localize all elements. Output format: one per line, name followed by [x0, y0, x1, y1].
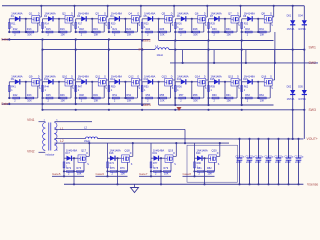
transistor Q2 cell with diode D2 and resistors	[41, 6, 74, 37]
transistor Q7 cell with diode D7 and resistors	[207, 6, 240, 37]
node Gate3 junction 2	[41, 103, 43, 105]
net label IN1	[139, 48, 144, 52]
transistor Q14 cell with diode D14 and resistors	[174, 50, 208, 103]
transistor Q20 cell with diode D20 and resistors	[183, 143, 220, 184]
node Gate2 junction 5	[141, 39, 143, 41]
ground symbol	[131, 184, 139, 192]
transistor Q3 cell with diode D3 and resistors	[75, 6, 108, 37]
wire row2 rail ext	[41, 104, 43, 110]
node top bus junction 6	[206, 5, 208, 7]
transistor Q16 cell with diode D16 and resistors	[241, 50, 275, 103]
svg-text:D01: D01	[287, 14, 292, 17]
svg-text:10K: 10K	[227, 100, 232, 103]
svg-text:10K: 10K	[227, 34, 232, 37]
wire source drop	[213, 50, 215, 63]
svg-text:10K: 10K	[164, 172, 169, 175]
net label Gate4	[142, 103, 151, 107]
svg-text:Q2: Q2	[62, 12, 66, 16]
wire Gate3 bus	[2, 103, 150, 105]
transistor Q18 cell with diode D18 and resistors	[96, 143, 133, 184]
node IN1 bus junction 6	[207, 49, 209, 51]
svg-text:Q20: Q20	[212, 148, 218, 152]
svg-text:22uF: 22uF	[285, 161, 291, 164]
node drain bus join	[184, 142, 186, 144]
wire L2 out	[98, 138, 240, 140]
net label L1 sec	[60, 127, 64, 131]
svg-text:D02: D02	[287, 86, 292, 89]
wire L1 net	[55, 128, 186, 130]
svg-text:Q3: Q3	[95, 12, 99, 16]
transformer T1 secondary winding	[54, 123, 57, 151]
wire rail drop row2 cell 7	[208, 98, 210, 105]
wire inter-row rail 1	[41, 40, 43, 50]
wire right column A	[292, 6, 294, 139]
node Gate2 junction 6	[174, 39, 176, 41]
node top bus junction right	[292, 5, 294, 7]
node top bus junction 8	[273, 5, 275, 7]
svg-text:Q4: Q4	[128, 12, 132, 16]
wire rail drop cell 5	[141, 32, 143, 41]
net label VOUT+	[307, 137, 318, 141]
svg-text:R19: R19	[93, 28, 98, 31]
node vout col A	[292, 138, 294, 140]
inductor L2	[84, 125, 98, 143]
wire source drop	[245, 50, 247, 63]
svg-text:R33: R33	[245, 28, 250, 31]
wire right column B	[303, 6, 305, 139]
node SW3 junction 1	[41, 109, 43, 111]
node Gate1 junction 4	[108, 38, 110, 40]
transistor Q12 cell with diode D12 and resistors	[108, 50, 142, 103]
pin 2 label	[44, 150, 46, 152]
node Gate1 junction 1	[8, 38, 10, 40]
svg-text:Q19: Q19	[168, 148, 174, 152]
wire Gate4 bus	[159, 104, 274, 106]
wire rail drop cell 6	[174, 32, 176, 41]
wire SW3 bus	[43, 109, 304, 111]
node Gate1 junction 3	[75, 38, 77, 40]
transistor Q19 cell with diode D19 and resistors	[139, 143, 176, 184]
wire Gate1 bus	[2, 39, 150, 41]
svg-text:R55: R55	[160, 94, 165, 97]
transformer T1 label	[46, 154, 55, 157]
wire inter-row rail 2	[74, 40, 76, 50]
net label Gate5	[52, 172, 61, 176]
svg-text:R25: R25	[160, 28, 165, 31]
svg-text:Gate6: Gate6	[96, 172, 105, 176]
svg-text:R48: R48	[79, 94, 84, 97]
node Gate3 junction 4	[108, 103, 110, 105]
svg-text:R31: R31	[226, 28, 231, 31]
svg-text:R51: R51	[112, 94, 117, 97]
capacitor C16	[285, 138, 294, 186]
wire IN1 bus	[43, 49, 304, 51]
wire row2 rail 5	[141, 50, 143, 104]
transistor Q11 cell with diode D11 and resistors	[75, 50, 109, 103]
wire L2 net	[55, 142, 65, 144]
wire inter-row rail 7	[240, 40, 242, 50]
transistor Q8 cell with diode D8 and resistors	[241, 6, 274, 37]
wire rail drop cell 8	[241, 32, 243, 41]
transformer T1 primary winding	[43, 122, 46, 151]
node Gate4 junction 6	[174, 104, 176, 106]
node gnd junction row3 2	[116, 183, 118, 185]
node IN1 bus junction 4	[141, 49, 143, 51]
svg-text:R63: R63	[245, 94, 250, 97]
svg-text:Q9: Q9	[29, 75, 33, 79]
svg-text:R22: R22	[126, 28, 131, 31]
net label Gate3	[1, 102, 10, 106]
svg-text:Gate7: Gate7	[139, 172, 148, 176]
svg-text:10K: 10K	[94, 100, 99, 103]
svg-text:D20: D20	[196, 152, 201, 155]
svg-text:R82: R82	[207, 167, 212, 170]
svg-text:Q18: Q18	[125, 148, 131, 152]
svg-text:VIN2: VIN2	[27, 149, 35, 153]
svg-text:22uF: 22uF	[295, 161, 301, 164]
wire gate4 feed	[158, 98, 160, 105]
svg-text:10K: 10K	[208, 172, 213, 175]
net label Gate2	[142, 38, 151, 42]
svg-text:Q14: Q14	[195, 75, 201, 79]
svg-text:R34: R34	[259, 28, 264, 31]
net label Vsense	[307, 183, 318, 187]
svg-text:Q1: Q1	[29, 12, 33, 16]
svg-text:R45: R45	[46, 94, 51, 97]
inductor L1	[155, 44, 169, 57]
svg-text:SW2: SW2	[309, 61, 316, 65]
svg-text:R75: R75	[110, 167, 115, 170]
wire source drop	[182, 50, 184, 63]
node row3 drain junction 4	[219, 142, 221, 144]
net label L2 sec	[60, 139, 64, 143]
transistor Q10 cell with diode D10 and resistors	[41, 50, 75, 103]
svg-text:R16: R16	[60, 28, 65, 31]
node IN1 bus junction 5	[174, 49, 176, 51]
svg-text:1N74A: 1N74A	[287, 28, 295, 31]
transistor Q17 cell with diode D17 and resistors	[52, 143, 89, 184]
node SW3 junction 7	[241, 109, 243, 111]
svg-text:22u: 22u	[289, 155, 294, 158]
svg-text:10K: 10K	[61, 34, 66, 37]
svg-text:D05: D05	[298, 86, 303, 89]
svg-text:Q12: Q12	[128, 75, 134, 79]
net label Gate1	[1, 38, 10, 42]
node IN1 bus junction 2	[75, 49, 77, 51]
svg-text:R60: R60	[212, 94, 217, 97]
svg-text:R64: R64	[259, 94, 264, 97]
svg-text:Q15: Q15	[228, 75, 234, 79]
transistor Q5 cell with diode D5 and resistors	[141, 6, 174, 37]
node Gate3 junction 3	[75, 103, 77, 105]
wire T1 primary bottom	[39, 151, 46, 153]
svg-text:10K: 10K	[94, 34, 99, 37]
svg-text:R58: R58	[193, 94, 198, 97]
capacitor C14	[265, 138, 274, 186]
diode D05	[298, 86, 307, 102]
svg-text:R28: R28	[193, 28, 198, 31]
svg-text:10K: 10K	[160, 34, 165, 37]
node row3 drain junction 1	[88, 142, 90, 144]
node top bus junction 3	[107, 5, 109, 7]
svg-text:22u: 22u	[279, 155, 284, 158]
node SW3 junction 2	[75, 109, 77, 111]
node top bus junction 4	[140, 5, 142, 7]
svg-text:L2: L2	[60, 139, 64, 143]
node gnd junction row3 3	[160, 183, 162, 185]
svg-text:SW3: SW3	[309, 108, 316, 112]
svg-text:R18: R18	[79, 28, 84, 31]
svg-text:22uF: 22uF	[265, 161, 271, 164]
svg-text:SW1: SW1	[309, 46, 316, 50]
node IN1 bus junction 7	[241, 49, 243, 51]
svg-text:10uH: 10uH	[157, 53, 163, 57]
svg-text:R79: R79	[164, 167, 169, 170]
node top bus junction 7	[239, 5, 241, 7]
wire row2 rail 4	[108, 50, 110, 104]
wire rail drop cell 7	[208, 32, 210, 41]
wire inter-row rail 4	[141, 40, 143, 50]
node Gate1 junction 2	[41, 38, 43, 40]
wire row2 rail 7	[207, 50, 209, 104]
diode D02	[287, 86, 296, 102]
svg-text:1N74A: 1N74A	[298, 28, 306, 31]
svg-text:D19: D19	[153, 152, 158, 155]
node SW2 junction	[182, 62, 184, 64]
net label VIN1	[27, 118, 35, 122]
svg-text:Gate5: Gate5	[52, 172, 61, 176]
node IN1 bus junction right	[292, 49, 294, 51]
node SW3 junction 3	[108, 109, 110, 111]
node IN1 bus junction 1	[41, 49, 43, 51]
capacitor C17	[295, 138, 304, 186]
diode D04	[298, 14, 307, 31]
node gnd junction row3 1	[73, 183, 75, 185]
svg-text:inductor: inductor	[46, 154, 55, 157]
wire T1 primary top	[39, 121, 46, 123]
node SW3 junction colB	[303, 109, 305, 111]
node SW3 junction right	[292, 109, 294, 111]
svg-text:1N74A: 1N74A	[298, 98, 306, 101]
wire rail drop row2 cell 6	[174, 98, 176, 105]
svg-text:Q13: Q13	[162, 75, 168, 79]
svg-text:10K: 10K	[121, 172, 126, 175]
svg-text:22uF: 22uF	[255, 161, 261, 164]
wire SW2 bus	[170, 62, 318, 64]
no-ERC marker	[177, 107, 182, 111]
pin 9 label	[56, 150, 58, 152]
wire row2 rail 2	[41, 50, 43, 104]
svg-text:22uF: 22uF	[246, 161, 252, 164]
svg-text:D18: D18	[109, 152, 114, 155]
wire source drop cell8	[274, 32, 276, 63]
node IN1 bus junction colB	[303, 49, 305, 51]
svg-text:10K: 10K	[127, 34, 132, 37]
node Gate2 junction 8	[241, 39, 243, 41]
node Gate4 junction 8	[241, 104, 243, 106]
svg-text:Q6: Q6	[195, 12, 199, 16]
svg-text:R73: R73	[77, 167, 82, 170]
svg-text:VIN1: VIN1	[27, 118, 35, 122]
net label Gate8	[183, 172, 192, 176]
transistor Q4 cell with diode D4 and resistors	[108, 6, 141, 37]
svg-text:R21: R21	[112, 28, 117, 31]
transistor Q13 cell with diode D13 and resistors	[141, 50, 175, 103]
svg-text:R46: R46	[60, 94, 65, 97]
node SW3 junction 5	[174, 109, 176, 111]
svg-text:R81: R81	[197, 167, 202, 170]
node top bus junction 5	[173, 5, 175, 7]
svg-text:R42: R42	[13, 94, 18, 97]
svg-text:R12: R12	[13, 28, 18, 31]
net label SW2	[309, 61, 316, 65]
svg-text:Q17: Q17	[81, 148, 87, 152]
svg-text:22u: 22u	[259, 155, 264, 158]
net label VIN2	[27, 149, 35, 153]
svg-text:R13: R13	[27, 28, 32, 31]
svg-text:10K: 10K	[127, 100, 132, 103]
transistor Q9 cell with diode D9 and resistors	[8, 50, 42, 103]
svg-text:1N74A: 1N74A	[287, 98, 295, 101]
svg-text:R61: R61	[226, 94, 231, 97]
wire row3 drain bus	[64, 142, 229, 144]
wire row2 rail 8	[240, 50, 242, 104]
svg-text:10K: 10K	[160, 100, 165, 103]
wire inter-row rail 3	[108, 40, 110, 50]
wire rail drop row2 cell 5	[141, 98, 143, 105]
wire secondary pin top	[55, 121, 93, 123]
svg-text:Q11: Q11	[95, 75, 100, 79]
svg-text:Q7: Q7	[228, 12, 232, 16]
node row3 drain junction 3	[175, 142, 177, 144]
wire gate2 feed	[158, 32, 160, 41]
svg-text:10K: 10K	[260, 34, 265, 37]
transformer T1 core	[49, 123, 51, 151]
node gnd junction row3 4	[203, 183, 205, 185]
node SW2 junction	[245, 62, 247, 64]
svg-text:Vsense: Vsense	[307, 183, 318, 187]
svg-text:Q8: Q8	[261, 12, 265, 16]
wire L1 corner down	[184, 129, 186, 143]
svg-text:R76: R76	[120, 167, 125, 170]
selection box	[187, 145, 238, 182]
net label SW1	[309, 46, 316, 50]
svg-text:10K: 10K	[27, 100, 32, 103]
svg-text:R57: R57	[179, 94, 184, 97]
net label Gate7	[139, 172, 148, 176]
capacitor C12	[246, 138, 255, 186]
svg-text:22u: 22u	[240, 155, 245, 158]
svg-text:R27: R27	[179, 28, 184, 31]
svg-text:R43: R43	[27, 94, 32, 97]
wire row2 rail 6	[174, 50, 176, 104]
transistor Q1 cell with diode D1 and resistors	[8, 6, 41, 37]
svg-text:D04: D04	[298, 14, 303, 17]
transistor Q6 cell with diode D6 and resistors	[174, 6, 207, 37]
pin 1 label	[44, 120, 46, 122]
node top bus junction 1	[40, 5, 42, 7]
svg-text:10K: 10K	[61, 100, 66, 103]
net label Gate6	[96, 172, 105, 176]
svg-text:10K: 10K	[193, 34, 198, 37]
svg-text:R78: R78	[154, 167, 159, 170]
svg-text:Q10: Q10	[62, 75, 68, 79]
node Gate3 junction 1	[8, 103, 10, 105]
svg-text:22uF: 22uF	[275, 161, 281, 164]
svg-text:10K: 10K	[77, 172, 82, 175]
svg-text:R54: R54	[146, 94, 151, 97]
capacitor C11	[236, 138, 245, 186]
svg-text:R72: R72	[67, 167, 72, 170]
svg-text:D17: D17	[66, 152, 71, 155]
svg-text:R24: R24	[146, 28, 151, 31]
svg-text:R30: R30	[212, 28, 217, 31]
svg-text:R49: R49	[93, 94, 98, 97]
wire top V+ bus	[2, 5, 304, 7]
node SW3 junction 4	[141, 109, 143, 111]
node SW3 junction 6	[207, 109, 209, 111]
wire ground bus	[64, 183, 303, 185]
wire inter-row rail 6	[207, 40, 209, 50]
svg-text:R15: R15	[46, 28, 51, 31]
svg-text:Q5: Q5	[162, 12, 166, 16]
diode D01	[287, 14, 296, 31]
svg-text:10K: 10K	[27, 34, 32, 37]
wire Gate2 bus	[159, 40, 274, 42]
capacitor C15	[275, 138, 284, 186]
node SW2 junction	[213, 62, 215, 64]
svg-text:22u: 22u	[299, 155, 304, 158]
svg-text:Q16: Q16	[261, 75, 267, 79]
svg-text:22u: 22u	[269, 155, 274, 158]
svg-text:VOUT+: VOUT+	[307, 137, 318, 141]
node Gate4 junction 7	[207, 104, 209, 106]
capacitor C13	[255, 138, 264, 186]
node row3 drain junction 2	[132, 142, 134, 144]
wire sec to L2	[55, 138, 86, 140]
wire VOUT+ bus	[239, 138, 303, 140]
node IN1 bus junction 3	[108, 49, 110, 51]
wire row2 rail 3	[74, 50, 76, 104]
node Gate4 junction 5	[141, 104, 143, 106]
net label SW3	[309, 108, 316, 112]
node SW2 junction r	[274, 62, 276, 64]
svg-text:10K: 10K	[260, 100, 265, 103]
svg-text:22uF: 22uF	[236, 161, 242, 164]
node top bus junction 2	[73, 5, 75, 7]
wire inter-row rail 5	[174, 40, 176, 50]
wire rail drop row2 cell 8	[241, 98, 243, 105]
svg-text:10K: 10K	[193, 100, 198, 103]
svg-text:R52: R52	[126, 94, 131, 97]
pin 5 label	[56, 120, 58, 122]
transistor Q15 cell with diode D15 and resistors	[207, 50, 241, 103]
node Gate2 junction 7	[207, 39, 209, 41]
